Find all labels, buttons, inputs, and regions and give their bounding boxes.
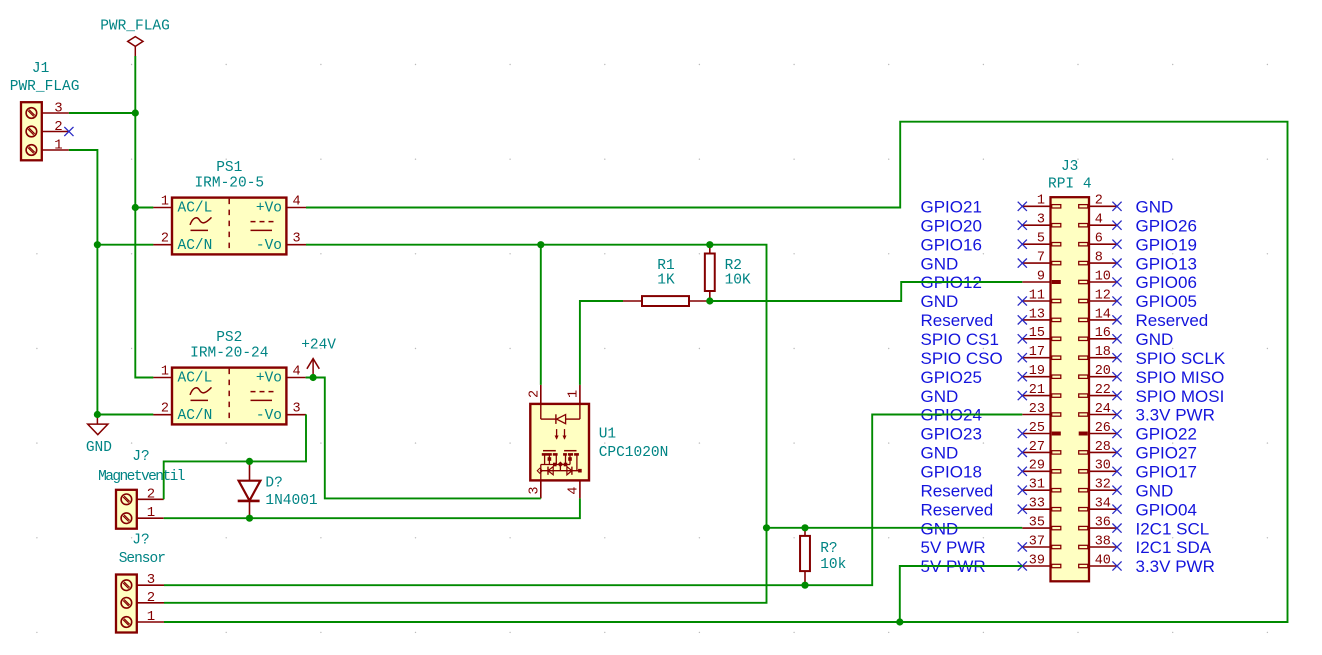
U1 pin 1 bbox=[567, 385, 582, 404]
svg-text:SPIO MISO: SPIO MISO bbox=[1136, 368, 1225, 387]
svg-text:1: 1 bbox=[161, 195, 169, 210]
Magnetventil pin 1 bbox=[137, 505, 164, 521]
J3 pin 21 (GND) bbox=[921, 383, 1061, 406]
PS1 pin 4 bbox=[286, 195, 306, 210]
J3 pin 22 (SPIO MOSI) bbox=[1079, 383, 1225, 406]
svg-text:2: 2 bbox=[161, 232, 169, 247]
svg-text:25: 25 bbox=[1029, 421, 1045, 436]
PS2 pin 4 bbox=[286, 365, 305, 380]
svg-text:I2C1 SDA: I2C1 SDA bbox=[1136, 538, 1212, 557]
J3 pin 11 (GND) bbox=[921, 288, 1061, 311]
J3 pin 4 (GPIO26) bbox=[1079, 213, 1197, 236]
connector J? Magnetventil (2-pin screw terminal) bbox=[98, 449, 185, 529]
svg-text:Reserved: Reserved bbox=[1136, 311, 1209, 330]
svg-text:31: 31 bbox=[1029, 478, 1045, 493]
svg-text:3: 3 bbox=[293, 232, 301, 247]
resistor R2 10K bbox=[705, 245, 751, 301]
J3 pin 30 (GPIO17) bbox=[1079, 459, 1197, 482]
svg-text:GPIO04: GPIO04 bbox=[1136, 500, 1197, 519]
svg-text:GND: GND bbox=[921, 519, 959, 538]
svg-text:3: 3 bbox=[1037, 213, 1045, 228]
J3 pin 19 (GPIO25) bbox=[921, 364, 1061, 387]
junction R? bottom bbox=[801, 582, 808, 589]
J3 pin 14 (Reserved) bbox=[1079, 307, 1209, 330]
J3 pin 17 (SPIO CSO) bbox=[921, 345, 1061, 368]
wire PWR_FLAG vertical bus down to PS2 pin 1 bbox=[135, 56, 153, 378]
svg-text:GPIO18: GPIO18 bbox=[921, 463, 982, 482]
PS2 pin 2 bbox=[153, 402, 172, 417]
svg-text:40: 40 bbox=[1095, 553, 1111, 568]
svg-text:3.3V PWR: 3.3V PWR bbox=[1136, 406, 1215, 425]
svg-text:16: 16 bbox=[1095, 326, 1111, 341]
svg-text:-Vo: -Vo bbox=[256, 238, 282, 254]
J3 pin 9 (GPIO12) bbox=[921, 269, 1061, 292]
svg-text:5: 5 bbox=[1037, 232, 1045, 247]
wire +24V junction right and down to U1 pin 3 bbox=[306, 378, 541, 499]
J3 pin 5 (GPIO16) bbox=[921, 232, 1061, 255]
svg-text:22: 22 bbox=[1095, 383, 1111, 398]
svg-text:GND: GND bbox=[921, 292, 959, 311]
wire PS1 pin 4 +5V loop to Sensor pin 1 bbox=[164, 122, 1288, 622]
Sensor pin 1 bbox=[137, 609, 164, 625]
svg-text:AC/N: AC/N bbox=[178, 408, 213, 424]
svg-text:10K: 10K bbox=[725, 273, 751, 289]
PS1 pin 3 bbox=[286, 232, 306, 247]
svg-text:3.3V PWR: 3.3V PWR bbox=[1136, 557, 1215, 576]
no-connect on J1 pin 2 bbox=[64, 127, 73, 136]
junction GND rail to J3 bbox=[763, 524, 770, 531]
svg-text:32: 32 bbox=[1095, 478, 1111, 493]
J3 pin 28 (GPIO27) bbox=[1079, 440, 1197, 463]
junction GND node bbox=[94, 411, 101, 418]
svg-text:3: 3 bbox=[54, 101, 62, 117]
svg-text:2: 2 bbox=[54, 119, 62, 135]
svg-text:I2C1 SCL: I2C1 SCL bbox=[1136, 519, 1210, 538]
J3 pin 23 (GPIO24) bbox=[921, 402, 1061, 425]
svg-text:GPIO19: GPIO19 bbox=[1136, 235, 1197, 254]
J3 pin 18 (SPIO SCLK) bbox=[1079, 345, 1226, 368]
junction +24V at PS2 pin4 bbox=[310, 374, 317, 381]
svg-text:J?: J? bbox=[132, 449, 149, 465]
svg-text:+24V: +24V bbox=[301, 338, 336, 354]
J3 pin 37 (5V PWR) bbox=[921, 534, 1061, 557]
svg-text:SPIO CS1: SPIO CS1 bbox=[921, 330, 999, 349]
svg-text:1: 1 bbox=[54, 138, 62, 154]
svg-text:2: 2 bbox=[147, 486, 155, 502]
svg-text:SPIO SCLK: SPIO SCLK bbox=[1136, 349, 1226, 368]
junction D? anode bbox=[246, 458, 253, 465]
wire GND rail branch to J3 pin 35 bbox=[767, 527, 1023, 529]
svg-text:34: 34 bbox=[1095, 497, 1111, 512]
svg-text:1: 1 bbox=[1037, 194, 1045, 209]
svg-text:Reserved: Reserved bbox=[921, 500, 994, 519]
svg-text:39: 39 bbox=[1029, 553, 1045, 568]
J3 pin 8 (GPIO13) bbox=[1079, 251, 1197, 274]
svg-text:GND: GND bbox=[1136, 330, 1174, 349]
svg-text:GPIO05: GPIO05 bbox=[1136, 292, 1197, 311]
svg-text:20: 20 bbox=[1095, 364, 1111, 379]
svg-text:AC/N: AC/N bbox=[178, 238, 213, 254]
svg-text:RPI 4: RPI 4 bbox=[1048, 176, 1092, 192]
svg-text:GPIO20: GPIO20 bbox=[921, 216, 982, 235]
wire J1 pin 1 down left rail to GND bbox=[69, 150, 98, 415]
svg-text:8: 8 bbox=[1095, 251, 1103, 266]
svg-text:26: 26 bbox=[1095, 421, 1111, 436]
svg-text:GPIO21: GPIO21 bbox=[921, 198, 982, 217]
svg-text:GND: GND bbox=[921, 254, 959, 273]
svg-text:9: 9 bbox=[1037, 269, 1045, 284]
svg-text:IRM-20-24: IRM-20-24 bbox=[190, 346, 268, 362]
svg-text:GPIO27: GPIO27 bbox=[1136, 444, 1197, 463]
J1 pin 1 bbox=[42, 138, 69, 154]
svg-text:1N4001: 1N4001 bbox=[265, 493, 317, 509]
svg-text:SPIO MOSI: SPIO MOSI bbox=[1136, 387, 1225, 406]
power supply PS2 IRM-20-24 bbox=[172, 330, 286, 424]
power flag PWR_FLAG bbox=[100, 19, 170, 57]
Magnetventil pin 2 bbox=[137, 486, 164, 502]
svg-text:37: 37 bbox=[1029, 534, 1045, 549]
svg-text:GPIO26: GPIO26 bbox=[1136, 216, 1197, 235]
J3 pin 32 (GND) bbox=[1079, 478, 1174, 501]
J3 pin 1 (GPIO21) bbox=[921, 194, 1061, 217]
J3 pin 36 (I2C1 SCL) bbox=[1079, 516, 1210, 539]
svg-text:GND: GND bbox=[1136, 198, 1174, 217]
svg-text:1K: 1K bbox=[657, 273, 675, 289]
svg-text:Sensor: Sensor bbox=[119, 551, 166, 567]
J3 pin 25 (GPIO23) bbox=[921, 421, 1061, 444]
svg-text:1: 1 bbox=[567, 390, 582, 398]
J3 pin 24 (3.3V PWR) bbox=[1079, 402, 1215, 425]
wire R1/R2 node to J3 pin 9 GPIO12 bbox=[710, 282, 1023, 301]
svg-text:PWR_FLAG: PWR_FLAG bbox=[100, 19, 170, 35]
svg-text:2: 2 bbox=[147, 590, 155, 606]
svg-text:PWR_FLAG: PWR_FLAG bbox=[10, 79, 80, 95]
svg-text:1: 1 bbox=[161, 365, 169, 380]
J3 pin 10 (GPIO06) bbox=[1079, 269, 1197, 292]
svg-text:CPC1020N: CPC1020N bbox=[599, 445, 669, 461]
Sensor pin 2 bbox=[137, 590, 164, 606]
svg-text:+Vo: +Vo bbox=[256, 371, 282, 387]
svg-text:-Vo: -Vo bbox=[256, 408, 282, 424]
J3 pin 7 (GND) bbox=[921, 251, 1061, 274]
wire 5V branch to J3 pin 39 bbox=[900, 566, 1023, 622]
svg-text:J1: J1 bbox=[32, 61, 49, 77]
svg-text:GND: GND bbox=[921, 387, 959, 406]
U1 pin 4 bbox=[567, 480, 582, 498]
svg-text:GPIO22: GPIO22 bbox=[1136, 425, 1197, 444]
svg-text:12: 12 bbox=[1095, 288, 1111, 303]
svg-text:10: 10 bbox=[1095, 269, 1111, 284]
PS2 pin 3 bbox=[286, 402, 306, 417]
J3 pin 33 (Reserved) bbox=[921, 497, 1061, 520]
svg-text:Reserved: Reserved bbox=[921, 311, 994, 330]
J3 pin 20 (SPIO MISO) bbox=[1079, 364, 1225, 387]
svg-text:AC/L: AC/L bbox=[178, 371, 213, 387]
diode D? 1N4001 bbox=[238, 461, 318, 518]
U1 pin 3 bbox=[528, 480, 543, 498]
svg-text:3: 3 bbox=[147, 572, 155, 588]
J3 pin 39 (5V PWR) bbox=[921, 553, 1061, 576]
J3 pin 15 (SPIO CS1) bbox=[921, 326, 1061, 349]
svg-text:GPIO17: GPIO17 bbox=[1136, 463, 1197, 482]
svg-text:4: 4 bbox=[1095, 213, 1103, 228]
svg-text:10k: 10k bbox=[820, 557, 846, 573]
svg-text:19: 19 bbox=[1029, 364, 1045, 379]
J3 pin 16 (GND) bbox=[1079, 326, 1174, 349]
resistor R1 1K bbox=[623, 258, 710, 306]
svg-text:33: 33 bbox=[1029, 497, 1045, 512]
svg-text:2: 2 bbox=[161, 402, 169, 417]
connector J3 RPI 4 (40-pin header) bbox=[1048, 159, 1092, 581]
J3 pin 34 (GPIO04) bbox=[1079, 497, 1197, 520]
PS2 pin 1 bbox=[153, 365, 172, 380]
svg-text:3: 3 bbox=[293, 402, 301, 417]
wire U1 pin 4 down to Magnetventil pin 1 rail bbox=[164, 498, 580, 518]
svg-text:30: 30 bbox=[1095, 459, 1111, 474]
wire GND junction to PS2 pin 2 bbox=[97, 414, 153, 416]
svg-text:38: 38 bbox=[1095, 534, 1111, 549]
wire branch to U1 pin 2 bbox=[540, 245, 542, 385]
svg-text:14: 14 bbox=[1095, 307, 1111, 322]
svg-text:J3: J3 bbox=[1061, 159, 1078, 175]
junction 5V branch bbox=[896, 618, 903, 625]
svg-text:Magnetventil: Magnetventil bbox=[98, 469, 185, 485]
J3 pin 6 (GPIO19) bbox=[1079, 232, 1197, 255]
svg-text:3: 3 bbox=[528, 487, 543, 495]
svg-text:23: 23 bbox=[1029, 402, 1045, 417]
svg-text:D?: D? bbox=[265, 476, 282, 492]
junction R2 top bbox=[706, 241, 713, 248]
svg-text:6: 6 bbox=[1095, 232, 1103, 247]
svg-text:GPIO13: GPIO13 bbox=[1136, 254, 1197, 273]
svg-text:GPIO23: GPIO23 bbox=[921, 425, 982, 444]
junction PS1 pin1 bus bbox=[132, 204, 139, 211]
svg-text:18: 18 bbox=[1095, 345, 1111, 360]
power supply PS1 IRM-20-5 bbox=[172, 160, 286, 254]
svg-text:+Vo: +Vo bbox=[256, 201, 282, 217]
svg-text:7: 7 bbox=[1037, 251, 1045, 266]
svg-text:GND: GND bbox=[86, 440, 112, 456]
J3 pin 40 (3.3V PWR) bbox=[1079, 553, 1215, 576]
J3 pin 35 (GND) bbox=[921, 516, 1061, 539]
svg-text:U1: U1 bbox=[599, 427, 616, 443]
wire Sensor pin 3 to J3 pin 23 GPIO24 bbox=[164, 415, 1022, 586]
J3 pin 31 (Reserved) bbox=[921, 478, 1061, 501]
U1 pin 2 bbox=[528, 385, 543, 404]
svg-text:28: 28 bbox=[1095, 440, 1111, 455]
wire U1 pin 1 up to R1 bbox=[580, 301, 623, 385]
svg-text:1: 1 bbox=[147, 609, 155, 625]
svg-text:GPIO06: GPIO06 bbox=[1136, 273, 1197, 292]
svg-text:GPIO16: GPIO16 bbox=[921, 235, 982, 254]
svg-text:J?: J? bbox=[132, 532, 149, 548]
J3 pin 29 (GPIO18) bbox=[921, 459, 1061, 482]
svg-text:GPIO25: GPIO25 bbox=[921, 368, 982, 387]
svg-text:11: 11 bbox=[1029, 288, 1045, 303]
svg-text:4: 4 bbox=[567, 487, 582, 495]
J3 pin 13 (Reserved) bbox=[921, 307, 1061, 330]
svg-text:2: 2 bbox=[1095, 194, 1103, 209]
J3 pin 3 (GPIO20) bbox=[921, 213, 1061, 236]
svg-text:Reserved: Reserved bbox=[921, 481, 994, 500]
wire Magnetventil pin 2 up to PS2 pin 3 bbox=[164, 414, 306, 499]
svg-text:GND: GND bbox=[921, 444, 959, 463]
svg-text:4: 4 bbox=[293, 365, 301, 380]
J1 pin 2 bbox=[42, 119, 69, 135]
PS1 pin 2 bbox=[153, 232, 172, 247]
svg-text:21: 21 bbox=[1029, 383, 1045, 398]
svg-text:35: 35 bbox=[1029, 516, 1045, 531]
svg-text:4: 4 bbox=[293, 195, 301, 210]
J3 pin 2 (GND) bbox=[1079, 194, 1174, 217]
resistor R? 10k bbox=[800, 528, 846, 585]
junction R? top bbox=[801, 524, 808, 531]
svg-text:13: 13 bbox=[1029, 307, 1045, 322]
svg-text:R2: R2 bbox=[725, 258, 742, 274]
wire PS1 pin 3 rail down to Sensor pin 2 bbox=[164, 245, 767, 603]
J3 pin 26 (GPIO22) bbox=[1079, 421, 1197, 444]
PS1 pin 1 bbox=[153, 195, 172, 210]
svg-text:IRM-20-5: IRM-20-5 bbox=[194, 176, 264, 192]
junction D? cathode bbox=[246, 515, 253, 522]
junction PS1 pin2 left rail bbox=[94, 241, 101, 248]
svg-text:GND: GND bbox=[1136, 481, 1174, 500]
svg-text:36: 36 bbox=[1095, 516, 1111, 531]
junction J1 pin3 / PWR_FLAG bbox=[132, 109, 139, 116]
power symbol +24V bbox=[301, 338, 336, 378]
svg-text:R1: R1 bbox=[657, 258, 674, 274]
power symbol GND bbox=[86, 415, 112, 457]
svg-text:29: 29 bbox=[1029, 459, 1045, 474]
J3 pin 38 (I2C1 SDA) bbox=[1079, 534, 1212, 557]
svg-text:27: 27 bbox=[1029, 440, 1045, 455]
svg-text:5V PWR: 5V PWR bbox=[921, 538, 986, 557]
wire J1 pin 3 to PWR_FLAG bus bbox=[69, 112, 135, 114]
connector J1 (PWR_FLAG screw terminal) bbox=[10, 61, 80, 160]
J1 pin 3 bbox=[42, 101, 69, 117]
svg-text:AC/L: AC/L bbox=[178, 201, 213, 217]
svg-text:PS2: PS2 bbox=[216, 330, 242, 346]
junction U1 pin2 branch bbox=[537, 241, 544, 248]
svg-text:PS1: PS1 bbox=[216, 160, 242, 176]
wire left rail to PS1 pin 2 bbox=[97, 244, 153, 246]
solid-state relay U1 CPC1020N bbox=[530, 404, 668, 481]
svg-text:2: 2 bbox=[528, 390, 543, 398]
svg-text:R?: R? bbox=[820, 541, 837, 557]
junction R1/R2 node bbox=[706, 297, 713, 304]
J3 pin 12 (GPIO05) bbox=[1079, 288, 1197, 311]
svg-text:1: 1 bbox=[147, 505, 155, 521]
J3 pin 27 (GND) bbox=[921, 440, 1061, 463]
Sensor pin 3 bbox=[137, 572, 164, 588]
connector J? Sensor (3-pin screw terminal) bbox=[116, 532, 165, 632]
svg-text:17: 17 bbox=[1029, 345, 1045, 360]
svg-text:24: 24 bbox=[1095, 402, 1111, 417]
svg-text:SPIO CSO: SPIO CSO bbox=[921, 349, 1003, 368]
wire PS1 pin 1 stub bbox=[135, 207, 153, 209]
svg-text:15: 15 bbox=[1029, 326, 1045, 341]
